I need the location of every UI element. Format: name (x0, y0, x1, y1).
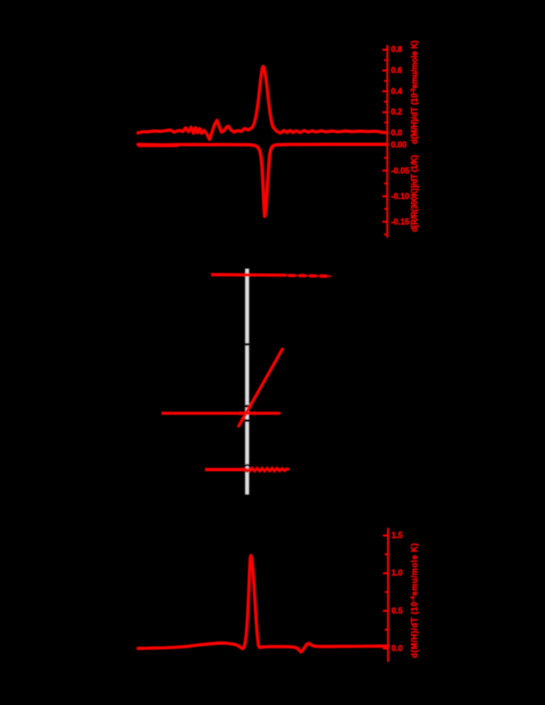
svg-text:0.2: 0.2 (391, 108, 403, 117)
svg-text:1.0: 1.0 (392, 569, 404, 578)
svg-text:d[R/R(300K)]/dT (1/K): d[R/R(300K)]/dT (1/K) (410, 155, 419, 232)
svg-text:0.0: 0.0 (391, 129, 403, 138)
svg-text:0.00: 0.00 (391, 141, 407, 150)
svg-text:-0.05: -0.05 (391, 166, 410, 175)
svg-text:0.4: 0.4 (391, 87, 403, 96)
svg-text:-0.15: -0.15 (391, 217, 410, 226)
svg-text:0.8: 0.8 (391, 45, 403, 54)
svg-text:0.5: 0.5 (392, 606, 404, 615)
svg-text:1.5: 1.5 (392, 531, 404, 540)
svg-text:0.0: 0.0 (392, 644, 404, 653)
svg-text:-0.10: -0.10 (391, 192, 410, 201)
svg-text:0.6: 0.6 (391, 66, 403, 75)
